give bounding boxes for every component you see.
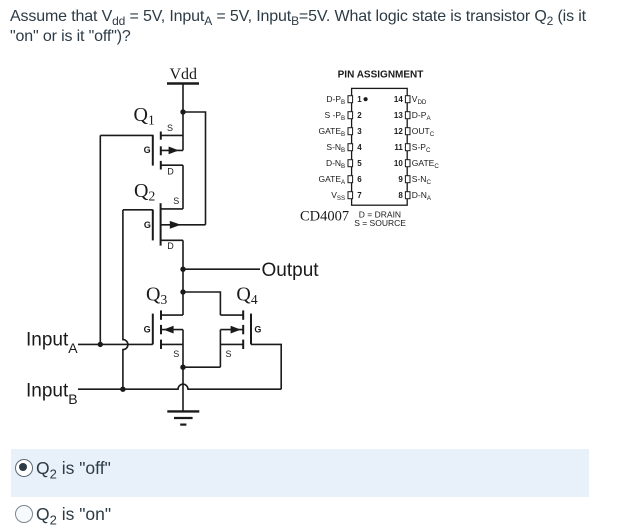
svg-text:11: 11 <box>394 143 403 152</box>
transistor Q1 (PMOS) <box>153 132 183 170</box>
transistor Q2 (PMOS) <box>153 203 206 245</box>
svg-text:GATEA: GATEA <box>319 174 347 186</box>
wire bottom tie Q3 source to Q4 source <box>183 366 220 368</box>
node InputA junction dot <box>98 342 103 347</box>
svg-text:5: 5 <box>357 159 362 168</box>
svg-text:Output: Output <box>262 260 320 281</box>
pin 9 stub <box>405 176 410 183</box>
wire Q3 bulk/source down to ground node <box>182 330 184 368</box>
pin 6 stub <box>348 176 353 183</box>
power rail Vdd bar <box>167 82 199 84</box>
svg-text:Q2: Q2 <box>134 180 155 204</box>
svg-text:S = SOURCE: S = SOURCE <box>354 218 406 228</box>
svg-text:InputA: InputA <box>26 329 78 356</box>
wire InputA up to Q1 gate <box>99 135 101 344</box>
svg-text:D-NB: D-NB <box>326 158 345 170</box>
wire Q2 gate lead <box>123 209 153 211</box>
svg-text:3: 3 <box>357 127 362 136</box>
svg-text:D-NA: D-NA <box>412 190 432 202</box>
pin 14 stub <box>405 96 410 103</box>
svg-text:2: 2 <box>357 111 362 120</box>
svg-text:Vdd: Vdd <box>170 66 198 83</box>
wire Vdd bar down to Q1 source/bulk <box>182 84 184 151</box>
svg-text:6: 6 <box>357 175 362 184</box>
svg-text:S: S <box>167 123 173 133</box>
pin 7 stub <box>348 192 353 199</box>
answer option 2 radio (unselected) <box>15 505 33 523</box>
pin 12 stub <box>405 128 410 135</box>
svg-text:VDD: VDD <box>412 94 427 106</box>
svg-text:S: S <box>173 196 179 206</box>
answer option 1 text <box>36 456 111 480</box>
svg-text:S-NC: S-NC <box>412 174 432 186</box>
svg-text:GATEC: GATEC <box>412 158 440 170</box>
wire Q4 bulk/source down to bottom tie <box>219 330 221 368</box>
pin 1 stub <box>348 96 353 103</box>
svg-text:4: 4 <box>357 143 362 152</box>
wire output node down to Q3 drain <box>182 269 184 315</box>
pin 13 stub <box>405 112 410 119</box>
svg-text:Q1: Q1 <box>134 104 155 128</box>
svg-text:CD4007: CD4007 <box>300 208 349 224</box>
pin 10 stub <box>405 160 410 167</box>
svg-text:1: 1 <box>357 95 362 104</box>
svg-text:InputB: InputB <box>26 380 78 407</box>
svg-text:8: 8 <box>398 191 403 200</box>
node Output junction dot <box>180 267 185 272</box>
svg-text:OUTC: OUTC <box>412 126 435 138</box>
svg-text:10: 10 <box>394 159 403 168</box>
pin 5 stub <box>348 160 353 167</box>
node A junction dot (Vdd node) <box>180 109 185 114</box>
wire node B right branch to Q4 drain <box>183 292 220 315</box>
pin 11 stub <box>405 144 410 151</box>
wire Q4 gate lead to right riser <box>251 344 281 389</box>
svg-text:PIN ASSIGNMENT: PIN ASSIGNMENT <box>338 70 424 81</box>
svg-text:D-PA: D-PA <box>412 110 432 122</box>
pin 4 stub <box>348 144 353 151</box>
ground symbol <box>167 411 199 424</box>
svg-text:Q3: Q3 <box>146 284 167 308</box>
wire Q1 gate lead <box>100 134 153 136</box>
node C junction dot (source tie) <box>180 365 185 370</box>
wire InputA line to Q3 gate <box>78 343 153 345</box>
svg-text:D: D <box>167 166 174 176</box>
transistor Q4 (NMOS, mirrored) <box>220 310 251 349</box>
pin 1 marker dot <box>364 97 368 101</box>
wire InputB riser to Q2 gate with hop over InputA <box>123 210 128 389</box>
svg-text:GATEB: GATEB <box>319 126 346 138</box>
svg-text:G: G <box>254 324 261 334</box>
svg-text:Q4: Q4 <box>236 284 257 308</box>
svg-text:14: 14 <box>394 95 403 104</box>
wire InputB line with hop over ground wire to Q4 gate riser <box>78 384 281 389</box>
node InputB junction dot <box>120 387 125 392</box>
node B junction dot <box>180 289 185 294</box>
wire Q2 drain to output node <box>182 240 184 269</box>
svg-text:S: S <box>226 349 232 359</box>
svg-text:9: 9 <box>398 175 403 184</box>
svg-text:13: 13 <box>394 111 403 120</box>
svg-text:D: D <box>167 241 174 251</box>
svg-text:S-PC: S-PC <box>412 142 431 154</box>
svg-text:G: G <box>144 145 151 155</box>
wire source tie down to ground <box>182 367 184 411</box>
answer option 1 radio (selected) <box>15 459 33 477</box>
wire node A right branch down to Q2 bulk <box>183 112 206 225</box>
svg-text:G: G <box>144 324 151 334</box>
transistor Q3 (NMOS) <box>153 310 183 349</box>
svg-text:S -PB: S -PB <box>325 110 346 122</box>
svg-text:G: G <box>144 220 151 230</box>
svg-text:12: 12 <box>394 127 403 136</box>
answer option 1 highlighted background <box>11 449 589 497</box>
svg-text:VSS: VSS <box>331 190 345 202</box>
IC body CD4007 <box>352 88 408 205</box>
wire Q1 drain to Q2 source <box>182 165 184 209</box>
wire to Output label <box>183 268 260 270</box>
svg-text:7: 7 <box>357 191 362 200</box>
pin 2 stub <box>348 112 353 119</box>
pin 3 stub <box>348 128 353 135</box>
svg-text:D-PB: D-PB <box>326 94 345 106</box>
svg-text:S-NB: S-NB <box>326 142 345 154</box>
svg-text:S: S <box>173 349 179 359</box>
pin 8 stub <box>405 192 410 199</box>
answer option 2 text <box>36 502 111 526</box>
